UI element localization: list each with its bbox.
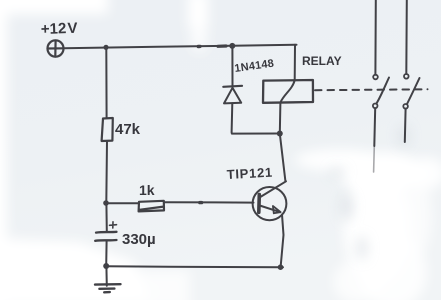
wire J2 to diode <box>231 46 233 86</box>
power terminal +12V <box>48 40 64 56</box>
node J5 <box>278 264 284 270</box>
relay coil top pin wire <box>294 45 296 81</box>
svg-text:1k: 1k <box>139 182 155 198</box>
transistor Q1 base bar <box>257 195 261 213</box>
ground <box>95 284 121 292</box>
contact K2 arm <box>407 78 420 104</box>
contact K1 arm <box>376 78 389 104</box>
diode D1 triangle <box>224 88 241 104</box>
node J3 <box>103 200 109 206</box>
contact K2 bottom terminal <box>403 104 408 109</box>
relay coil bottom pin wire <box>279 103 282 134</box>
transistor Q1 collector stroke <box>260 181 287 197</box>
svg-text:47k: 47k <box>115 121 141 138</box>
resistor R2 1k body <box>139 201 164 212</box>
wire J6 to collector <box>280 134 286 181</box>
svg-text:330µ: 330µ <box>122 231 156 248</box>
contact K2 top terminal <box>404 74 409 79</box>
transistor Q1 emitter stroke <box>260 206 281 213</box>
ink blob on base wire <box>200 201 202 204</box>
svg-text:TIP121: TIP121 <box>226 165 273 182</box>
ink blob on top rail <box>198 45 200 48</box>
svg-text:+12 V: +12 V <box>41 20 78 38</box>
relay coil box <box>263 80 313 103</box>
node J4 <box>103 263 109 269</box>
diode D1 cathode bar <box>223 86 242 87</box>
wire J1 to R1 <box>105 47 107 118</box>
contact K2 top wire <box>405 0 408 74</box>
contact K1 bottom wire <box>373 108 376 146</box>
wire C1 to J4 <box>105 241 107 266</box>
resistor R1 47k body <box>102 118 113 141</box>
capacitor C1 plus sign <box>110 222 117 228</box>
contact K1 bottom wire faint <box>373 146 376 172</box>
ink blob thickening on top rail <box>218 44 226 47</box>
wire bottom rail <box>106 266 283 267</box>
node J1 <box>103 45 108 50</box>
relay actuation dashed link <box>315 88 428 91</box>
contact K1 top terminal <box>373 75 378 80</box>
wire R1 to J3 <box>105 141 108 203</box>
wire D1 to J6 <box>232 103 280 133</box>
node J2 <box>229 43 235 49</box>
node J6 <box>277 131 283 137</box>
wire J4 to ground <box>105 266 107 286</box>
wire emitter to J5 <box>281 215 284 268</box>
relay coil diagonal <box>280 80 294 102</box>
contact K1 top wire <box>374 0 376 75</box>
wire J3 to capacitor <box>105 203 107 231</box>
wire J3 to R2 <box>106 202 139 204</box>
transistor Q1 circle <box>253 187 287 220</box>
contact K2 bottom wire <box>404 109 407 142</box>
transistor Q1 emitter arrow <box>273 206 281 213</box>
wire top rail <box>64 45 297 49</box>
wire R2 to base <box>164 201 254 203</box>
capacitor C1 plates <box>95 232 116 241</box>
svg-text:RELAY: RELAY <box>302 54 342 68</box>
contact K1 bottom terminal <box>373 104 378 109</box>
